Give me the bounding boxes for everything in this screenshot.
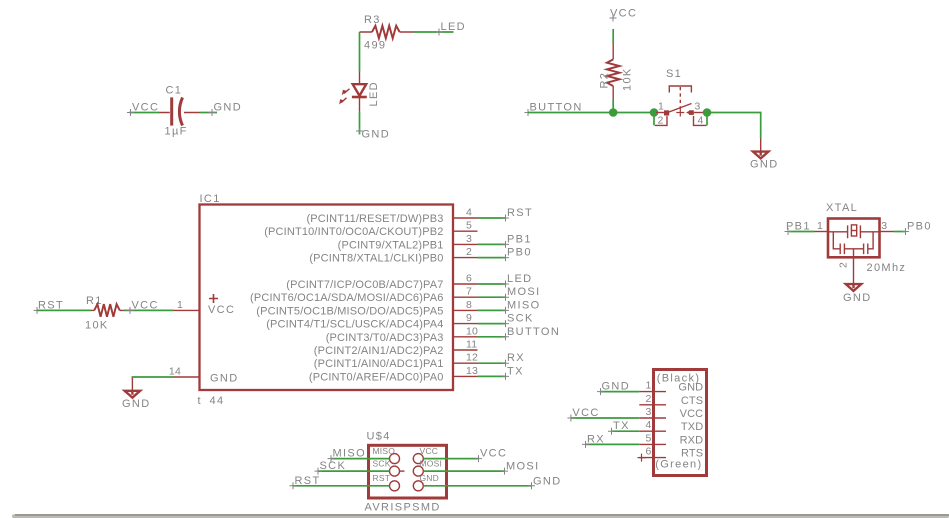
svg-text:VCC: VCC [610,8,637,20]
svg-text:VCC: VCC [680,408,704,420]
node VCC (C1 left) [127,102,159,117]
ground (IC1 pin14) [122,378,151,410]
node TX (serial) [608,420,630,435]
svg-text:MOSI: MOSI [506,461,540,473]
svg-text:MOSI: MOSI [420,459,443,469]
svg-text:RX: RX [507,352,525,364]
node MISO [502,299,541,314]
svg-text:(PCINT1/AIN0/ADC1)PA1: (PCINT1/AIN0/ADC1)PA1 [314,358,444,370]
wire C1-GND [200,112,218,114]
wire RX (serial) [586,443,640,445]
pin 5 RXD (serial) [639,432,703,446]
svg-text:(PCINT8/XTAL1/CLKI)PB0: (PCINT8/XTAL1/CLKI)PB0 [309,253,443,265]
node MISO (u4) [328,448,367,463]
pad SCK (left) [373,459,400,477]
svg-text:GND: GND [362,129,391,141]
svg-text:GND: GND [678,382,703,394]
svg-text:TXD: TXD [681,421,703,433]
wire pin 3 to PB1 [478,243,506,245]
svg-text:4: 4 [466,207,472,219]
node PB0 (xtal) [902,221,932,236]
wire pin 2 to PB0 [478,257,506,259]
svg-text:MOSI: MOSI [507,286,541,298]
svg-text:(PCINT10/INT0/OC0A/CKOUT)PB2: (PCINT10/INT0/OC0A/CKOUT)PB2 [264,226,443,238]
svg-text:R2: R2 [599,72,611,89]
pad RST (left) [373,473,400,491]
svg-text:VCC: VCC [132,299,159,311]
junction at R2 bottom [609,108,618,117]
svg-text:GND: GND [533,475,562,487]
svg-text:RST: RST [507,207,533,219]
svg-text:TX: TX [507,365,524,377]
pin 1 GND (serial) [639,380,703,394]
pin 3 VCC (serial) [639,406,703,420]
svg-text:(PCINT0/AREF/ADC0)PA0: (PCINT0/AREF/ADC0)PA0 [309,371,444,383]
wire pin 6 to LED [478,283,506,285]
junction at S1 pin3 [703,108,712,117]
pin 4 loop [706,115,708,126]
pin 1 XTAL [815,220,829,232]
svg-text:1: 1 [177,299,183,311]
resistor R1 10K [85,295,124,332]
svg-text:RXD: RXD [680,434,704,446]
svg-text:2: 2 [645,393,651,405]
node RX [502,352,525,367]
svg-text:LED: LED [368,81,380,106]
node GND (serial) [597,381,630,396]
pin 11 (PCINT2/AIN1/ADC2)PA2 [314,339,478,358]
wire RST to R1 [37,309,91,311]
svg-text:GND: GND [420,473,440,483]
wire TX (serial) [612,430,640,432]
crystal XTAL 20Mhz [826,202,906,274]
pin 5 (PCINT10/INT0/OC0A/CKOUT)PB2 [264,220,477,239]
svg-text:PB1: PB1 [786,221,811,233]
resistor R3 499 [360,14,415,52]
svg-text:GND: GND [750,159,779,171]
IC1 body [200,205,454,391]
node GND (C1 right) [209,102,243,117]
svg-text:5: 5 [645,432,651,444]
wire pin14 to GND [132,377,173,379]
pin 4 (PCINT11/RESET/DW)PB3 [306,207,477,226]
svg-text:10K: 10K [85,320,109,332]
node TX [502,365,524,380]
svg-text:MISO: MISO [373,446,396,456]
svg-text:C1: C1 [166,85,183,97]
svg-text:1: 1 [817,220,823,232]
node LED (top right label) [436,21,466,36]
svg-text:3: 3 [881,220,887,232]
node RST [502,207,533,222]
svg-text:3: 3 [645,406,651,418]
svg-text:2: 2 [838,262,850,268]
svg-text:9: 9 [466,312,472,324]
pin 2 CTS (serial) [639,393,703,407]
pad MOSI (right) [413,459,442,477]
wire pin 9 to SCK [478,323,506,325]
node RST (left) [34,299,65,314]
power VCC (top) [610,8,638,22]
svg-text:10K: 10K [622,67,634,91]
wire pin 12 to RX [478,362,506,364]
connector U$4 AVRISPSMD [365,431,447,514]
svg-text:3: 3 [466,233,472,245]
node LED [502,273,532,288]
pin 2 XTAL to ground [838,257,872,304]
capacitor C1 [159,85,199,138]
wire VCC to R2 [612,29,614,44]
svg-text:GND: GND [602,381,631,393]
wire SCK [318,470,390,472]
node RST (u4) [290,475,321,490]
node MOSI [502,286,541,301]
svg-text:6: 6 [645,446,651,458]
node BUTTON (label) [525,102,583,117]
svg-text:6: 6 [466,273,472,285]
svg-text:2: 2 [466,246,472,258]
pin 14 GND [169,366,200,378]
svg-text:BUTTON: BUTTON [507,326,560,338]
pin 4 TXD (serial) [639,419,703,433]
svg-text:2: 2 [658,115,664,127]
svg-text:3: 3 [695,101,701,113]
pin 13 (PCINT0/AREF/ADC0)PA0 [309,365,478,384]
svg-text:(PCINT2/AIN1/ADC2)PA2: (PCINT2/AIN1/ADC2)PA2 [314,345,444,357]
wire VCC-C1 [130,112,160,114]
svg-text:SCK: SCK [320,460,347,472]
svg-text:(PCINT5/OC1B/MISO/DO/ADC5)PA5: (PCINT5/OC1B/MISO/DO/ADC5)PA5 [256,305,443,317]
svg-text:RX: RX [587,433,605,445]
svg-text:4: 4 [645,419,651,431]
svg-text:GND: GND [210,373,239,385]
switch S1 [654,68,707,127]
svg-text:(PCINT3/T0/ADC3)PA3: (PCINT3/T0/ADC3)PA3 [326,332,444,344]
svg-text:VCC: VCC [420,446,439,456]
wire VCC (serial) [571,417,639,419]
wire XTAL to PB0 [894,231,906,233]
pin 12 (PCINT1/AIN0/ADC1)PA1 [314,352,478,371]
svg-text:CTS: CTS [681,395,703,407]
pin 8 (PCINT5/OC1B/MISO/DO/ADC5)PA5 [256,299,477,318]
svg-text:4: 4 [698,115,704,127]
svg-text:SCK: SCK [507,313,534,325]
wire GND [423,485,531,487]
svg-text:R3: R3 [364,14,381,26]
junction pin6 RTS [638,454,646,462]
wire R3 to LED label [414,31,454,33]
wire LED to GND label [359,112,361,135]
node BUTTON [502,326,560,341]
svg-text:1µF: 1µF [165,126,188,138]
node MOSI (u4) [501,461,540,475]
pin 7 (PCINT6/OC1A/SDA/MOSI/ADC6)PA6 [250,286,477,305]
svg-text:LED: LED [507,273,532,285]
window edge bar (bottom) [12,514,949,518]
svg-text:VCC: VCC [132,102,159,114]
node SCK (u4) [315,460,347,475]
pad GND (right) [413,473,439,491]
pin stub SCK [400,470,405,472]
svg-text:GND: GND [214,102,243,114]
pin 1 VCC [174,299,200,311]
wire VCC [423,458,478,460]
pin 2 (PCINT8/XTAL1/CLKI)PB0 [309,246,477,265]
svg-text:11: 11 [466,339,477,351]
pin 6 (PCINT7/ICP/OC0B/ADC7)PA7 [286,273,477,292]
node PB1 [502,233,532,248]
svg-text:PB1: PB1 [507,233,532,245]
junction at S1 pin1 [650,108,659,117]
node PB0 [502,247,532,262]
op-amp U1 / IC1 ATTINY44 [198,193,454,407]
svg-text:20Mhz: 20Mhz [867,262,907,274]
svg-text:U$4: U$4 [367,431,391,443]
wire RST [293,485,390,487]
pin 10 (PCINT3/T0/ADC3)PA3 [326,325,478,344]
pin 6 RTS (serial) [639,446,703,460]
node VCC (mid) [127,299,159,314]
svg-text:(PCINT4/T1/SCL/USCK/ADC4)PA4: (PCINT4/T1/SCL/USCK/ADC4)PA4 [266,319,443,331]
pin 3 (PCINT9/XTAL2)PB1 [338,233,478,252]
node VCC (serial) [567,407,599,422]
svg-text:5: 5 [466,220,472,232]
svg-text:(Green): (Green) [655,459,702,471]
svg-text:(PCINT9/XTAL2)PB1: (PCINT9/XTAL2)PB1 [338,239,444,251]
resistor R2 10K [599,44,634,99]
svg-text:GND: GND [843,292,872,304]
svg-text:RTS: RTS [681,448,703,460]
svg-text:TX: TX [613,420,630,432]
wire pin 13 to TX [478,375,506,377]
svg-text:MISO: MISO [507,299,541,311]
svg-text:1: 1 [658,101,664,113]
wire S1 to GND [707,113,761,139]
svg-text:(PCINT6/OC1A/SDA/MOSI/ADC6)PA6: (PCINT6/OC1A/SDA/MOSI/ADC6)PA6 [250,292,443,304]
pin 3 XTAL [880,220,894,232]
node GND (u4) [528,475,562,489]
svg-text:t: t [198,395,202,407]
svg-text:AVRISPSMD: AVRISPSMD [365,502,441,514]
node RX (serial) [582,433,605,448]
connector X1 serial (Black/Green) [654,370,707,476]
svg-text:13: 13 [466,365,478,377]
svg-text:RST: RST [295,475,321,487]
wire pin 4 to RST [478,217,506,219]
wire pin 10 to BUTTON [478,336,506,338]
wire R1 to pin1 [124,309,174,311]
svg-text:8: 8 [466,299,472,311]
svg-text:VCC: VCC [572,407,599,419]
svg-text:MISO: MISO [333,448,367,460]
wire BUTTON row [528,112,656,114]
svg-text:S1: S1 [666,68,682,80]
wire MOSI [423,470,504,472]
wire pin 8 to MISO [478,309,506,311]
wire MISO [331,458,390,460]
wire R2 to BUTTON row [612,99,614,113]
pin 2 loop [653,115,655,126]
wire pin 7 to MOSI [478,296,506,298]
node GND (below LED) [356,128,390,141]
wire PB1 to XTAL [789,231,815,233]
svg-text:VCC: VCC [480,448,507,460]
svg-text:XTAL: XTAL [826,202,858,214]
svg-text:GND: GND [122,398,151,410]
svg-text:IC1: IC1 [200,193,221,205]
pin 9 (PCINT4/T1/SCL/USCK/ADC4)PA4 [266,312,477,331]
svg-text:PB0: PB0 [507,247,532,259]
svg-text:10: 10 [466,325,478,337]
node SCK [502,313,534,328]
ground (top right) [750,139,779,171]
svg-text:7: 7 [466,286,472,298]
svg-text:LED: LED [441,21,466,33]
svg-text:PB0: PB0 [907,221,932,233]
svg-text:R1: R1 [86,295,103,307]
svg-text:RST: RST [373,473,391,483]
svg-text:VCC: VCC [208,304,235,316]
svg-text:1: 1 [645,380,651,392]
svg-text:14: 14 [169,366,181,378]
svg-text:(PCINT11/RESET/DW)PB3: (PCINT11/RESET/DW)PB3 [306,213,443,225]
node VCC (u4) [475,448,507,463]
wire GND (serial) [601,391,640,393]
wire R3 corner down [359,32,361,72]
diode LED1 [339,72,380,112]
svg-text:12: 12 [466,352,478,364]
pad VCC (right) [413,446,438,464]
svg-text:44: 44 [210,395,225,407]
svg-text:(PCINT7/ICP/OC0B/ADC7)PA7: (PCINT7/ICP/OC0B/ADC7)PA7 [286,279,443,291]
svg-text:SCK: SCK [373,459,391,469]
node PB1 (xtal) [785,221,811,236]
svg-text:499: 499 [364,40,386,52]
pad MISO (left) [373,446,400,464]
